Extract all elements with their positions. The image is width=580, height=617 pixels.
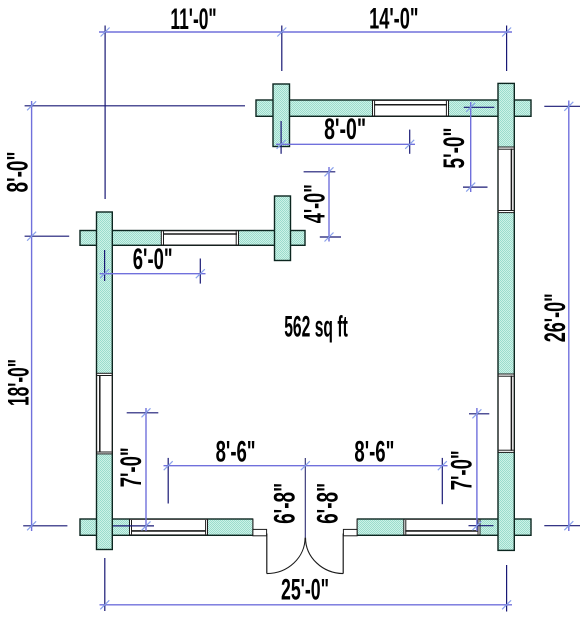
svg-text:4'-0": 4'-0" (299, 184, 332, 223)
dim 8-6 line (164, 465, 448, 467)
svg-text:6'-8": 6'-8" (312, 483, 345, 524)
log stub top-wall left end (273, 84, 290, 147)
dim 4-0 vertical (328, 167, 330, 242)
ext top-left (104, 26, 106, 200)
window W4 mid wall (161, 231, 238, 245)
log stub mid-wall right end (275, 196, 291, 261)
svg-text:562 sq ft: 562 sq ft (284, 310, 348, 343)
dim 26-0 vertical (568, 101, 570, 532)
ext left bottom (23, 525, 67, 527)
window W7 bottom wall right (404, 519, 480, 535)
dim bottom line (100, 604, 513, 606)
ext top-right (506, 26, 508, 72)
dim 6-0 line (100, 273, 206, 275)
dim 7-0 right vertical (476, 408, 478, 531)
svg-text:5'-0": 5'-0" (438, 128, 471, 169)
wall left vertical (97, 212, 113, 550)
svg-text:14'-0": 14'-0" (369, 2, 418, 35)
window W2 right wall upper (498, 147, 514, 213)
window W3 right wall lower (498, 374, 514, 452)
door swing arc left (267, 538, 305, 574)
window W6 bottom wall left (130, 519, 208, 535)
ext left mid (25, 235, 70, 237)
svg-text:25'-0": 25'-0" (281, 573, 329, 606)
svg-text:8'-0": 8'-0" (2, 152, 35, 193)
svg-text:7'-0": 7'-0" (115, 447, 148, 487)
door swing arc right (306, 538, 344, 574)
svg-text:11'-0": 11'-0" (170, 3, 216, 36)
dim 5-0 vertical (470, 102, 472, 192)
ext left top long (25, 105, 245, 107)
ext top-mid (281, 26, 283, 72)
wall right vertical (498, 83, 514, 550)
dim 8-0 inner line (276, 143, 415, 145)
svg-text:8'-6": 8'-6" (216, 436, 256, 469)
wall bottom horizontal (80, 519, 531, 535)
dim left vertical line (31, 101, 33, 531)
window W1 top wall (373, 100, 449, 116)
wall mid horizontal (80, 231, 305, 246)
dim 7-0 left vertical (145, 408, 147, 531)
door center line (304, 458, 306, 538)
door opening gap (253, 517, 357, 536)
svg-text:8'-6": 8'-6" (354, 436, 394, 469)
door jamb step left (253, 529, 267, 535)
svg-text:18'-0": 18'-0" (2, 359, 35, 406)
wall top horizontal (256, 100, 531, 116)
door leaf right (342, 534, 344, 574)
svg-text:7'-0": 7'-0" (445, 450, 478, 490)
svg-text:6'-0": 6'-0" (133, 243, 173, 276)
svg-text:8'-0": 8'-0" (324, 113, 366, 146)
dim top line (99, 31, 512, 33)
svg-text:26'-0": 26'-0" (539, 293, 572, 342)
svg-text:6'-8": 6'-8" (269, 483, 302, 524)
window W5 left wall (97, 373, 112, 454)
door leaf left (266, 534, 268, 574)
door jamb step right (343, 529, 357, 535)
